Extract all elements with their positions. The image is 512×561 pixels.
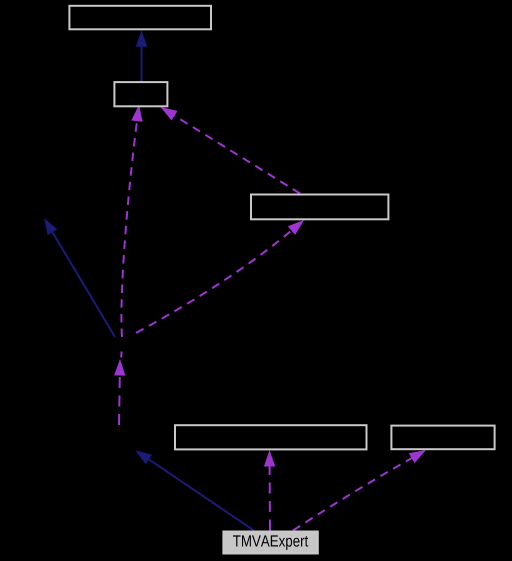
node box5 (bottom right class box, empty label) (391, 426, 494, 450)
edge nodeC->nodeB (usage, dashed purple) (114, 359, 125, 425)
label TMVAExpert (text as outline path) (233, 535, 308, 550)
edge nodeB->box2 (usage, dashed purple) (121, 105, 142, 337)
edge box3->box2 (usage, dashed purple) (161, 107, 301, 194)
node box3 (middle class box, empty label) (251, 195, 388, 220)
node box4 (bottom wide class box, empty label) (175, 425, 367, 449)
edge box2->box1 (inheritance, solid navy) (136, 30, 147, 81)
edge nodeB->upper-left (inheritance, solid navy) (44, 218, 115, 337)
edge TMVAExpert->hidden-node (inheritance, solid navy) (135, 450, 254, 530)
node box2 (small class box, empty label) (114, 82, 167, 106)
edge nodeB->box2 leading dash (wire) (120, 352, 122, 358)
node TMVAExpert (current class, gray filled box) (223, 532, 317, 554)
edge TMVAExpert->box5 (usage, dashed purple) (293, 450, 426, 531)
node box1 (top class box, empty label) (69, 6, 211, 30)
edge nodeB->box3 (usage, dashed purple) (136, 220, 304, 333)
edge TMVAExpert->box4 (usage, dashed purple) (264, 450, 275, 531)
